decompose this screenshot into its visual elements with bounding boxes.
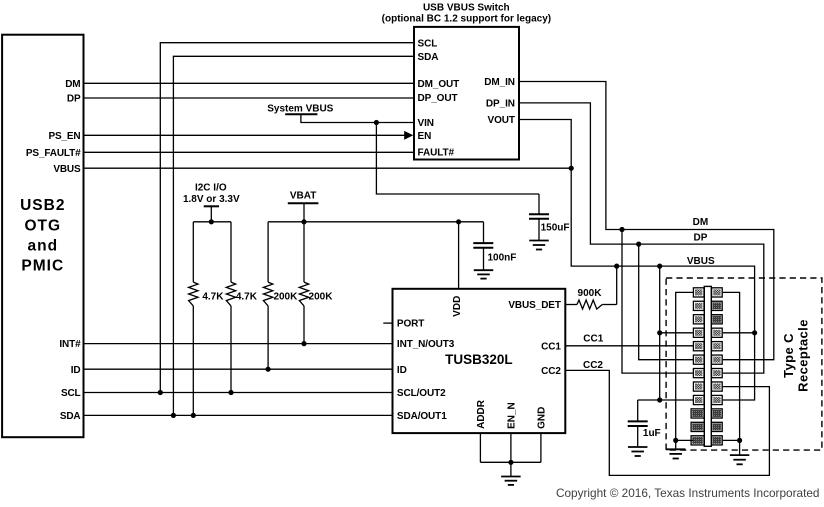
svg-text:GND: GND: [537, 407, 548, 429]
wire DM net (USB2 DM to DM_OUT): [84, 82, 414, 84]
stub PORT pin (NC): [383, 322, 392, 324]
connector pin B10 (right row 10): [712, 409, 723, 418]
svg-text:VBUS_DET: VBUS_DET: [508, 300, 561, 311]
svg-text:SCL/OUT2: SCL/OUT2: [397, 388, 446, 399]
svg-text:200K: 200K: [309, 291, 334, 302]
connector pin B4 (right row 4): [712, 328, 723, 337]
junction I2C rail: [209, 219, 214, 224]
junction R4 on INT_N net: [301, 341, 306, 346]
resistor R2 4.7K (SCL pullup): [230, 222, 232, 282]
block U3 TUSB320L: [393, 289, 566, 433]
wire PS_FAULT# to FAULT#: [84, 151, 414, 153]
svg-text:(optional BC 1.2 support for l: (optional BC 1.2 support for legacy): [382, 13, 551, 24]
svg-text:OTG: OTG: [25, 217, 62, 234]
block U2 USB2 OTG and PMIC: [2, 35, 83, 438]
connector pin A12 (left row 12): [691, 436, 704, 445]
connector pin B8 (right row 8): [712, 382, 723, 391]
wire GND right side (row1-row12): [723, 292, 740, 440]
wire VBUS (USB2 VBUS to VOUT net): [84, 167, 572, 169]
junction GND right row12: [737, 438, 742, 443]
connector pin B1 (right row 1): [712, 288, 723, 297]
svg-text:ID: ID: [397, 365, 407, 376]
svg-text:SDA: SDA: [418, 52, 439, 63]
svg-text:VBUS: VBUS: [53, 164, 81, 175]
svg-text:VIN: VIN: [418, 118, 434, 129]
capacitor C1 150uF: [538, 194, 540, 214]
svg-text:VOUT: VOUT: [488, 115, 515, 126]
wire CC1 to receptacle row5: [565, 345, 693, 347]
wire GND left side (row1-row12): [676, 292, 694, 440]
svg-text:100nF: 100nF: [488, 253, 517, 264]
junction VBUS right at row4: [752, 330, 757, 335]
junction R2 on SCL net: [228, 390, 233, 395]
wire DM branch to receptacle left: [622, 230, 693, 374]
wire VBUS row4 right: [723, 332, 755, 334]
svg-text:USB2: USB2: [20, 197, 65, 214]
svg-text:SCL: SCL: [418, 38, 438, 49]
wire SDA from switch down to SDA net: [173, 56, 413, 415]
junction R1 on SDA net: [191, 413, 196, 418]
connector pin A5 (left row 5): [693, 342, 704, 351]
svg-text:FAULT#: FAULT#: [418, 148, 455, 159]
svg-text:System VBUS: System VBUS: [267, 104, 333, 115]
svg-text:150uF: 150uF: [541, 223, 570, 234]
connector pin B6 (right row 6): [712, 355, 723, 364]
connector pin A8 (left row 8): [693, 382, 704, 391]
svg-text:SDA: SDA: [60, 411, 81, 422]
dashed box Type C Receptacle: [666, 278, 822, 450]
svg-text:PMIC: PMIC: [21, 258, 64, 275]
arrow into EN pin: [404, 131, 413, 140]
svg-text:SCL: SCL: [61, 388, 81, 399]
svg-text:DM_OUT: DM_OUT: [418, 79, 460, 90]
svg-text:4.7K: 4.7K: [236, 291, 258, 302]
wire VIN junction down to 150uF: [376, 123, 539, 195]
wire VBUS row4 left: [660, 332, 694, 334]
svg-text:DP_OUT: DP_OUT: [418, 93, 458, 104]
wire System VBUS to VIN: [301, 114, 414, 122]
svg-text:EN_N: EN_N: [507, 402, 518, 429]
connector pin A11 (left row 11): [691, 422, 704, 431]
svg-text:CC2: CC2: [541, 366, 561, 377]
svg-text:EN: EN: [418, 131, 432, 142]
svg-text:200K: 200K: [273, 291, 298, 302]
wire SDA net: [84, 414, 393, 416]
wire I2C supply stem and rail: [210, 206, 212, 222]
junction SDA vertical on SDA net: [171, 413, 176, 418]
svg-text:INT_N/OUT3: INT_N/OUT3: [397, 339, 455, 350]
svg-text:Receptacle: Receptacle: [795, 319, 810, 392]
svg-text:and: and: [28, 237, 59, 254]
svg-text:VBUS: VBUS: [687, 256, 715, 267]
svg-text:Type C: Type C: [781, 333, 796, 378]
connector pin B9 (right row 9): [712, 395, 723, 404]
wire bottom rail: [480, 461, 541, 463]
resistor R1 4.7K (SDA pullup): [192, 222, 194, 282]
connector pin A9 (left row 9): [693, 395, 704, 404]
svg-text:Copyright © 2016, Texas Instru: Copyright © 2016, Texas Instruments Inco…: [556, 486, 820, 500]
connector pin B12 (right row 12): [712, 436, 723, 445]
wire CC2 routed to receptacle row8 right: [565, 370, 769, 475]
svg-text:PORT: PORT: [397, 319, 424, 330]
wire VOUT VBUS to receptacle: [519, 120, 755, 401]
wire ADDR down: [479, 433, 481, 462]
svg-text:VDD: VDD: [452, 296, 463, 317]
ground receptacle right: [739, 440, 741, 455]
junction EN_N rail: [508, 460, 513, 465]
block U1 USB VBUS Switch: [414, 27, 519, 160]
svg-text:DM_IN: DM_IN: [484, 77, 515, 88]
svg-text:CC1: CC1: [541, 341, 561, 352]
connector pin A4 (left row 4): [693, 328, 704, 337]
svg-text:USB VBUS Switch: USB VBUS Switch: [423, 3, 510, 14]
junction VBUS left at row4: [657, 330, 662, 335]
svg-text:I2C I/O: I2C I/O: [195, 183, 227, 194]
junction VBUS left at row9 / 1uF: [657, 397, 662, 402]
junction VIN wire to 150uF branch: [374, 120, 379, 125]
ground TUSB320L: [510, 462, 512, 476]
connector pin A1 (left row 1): [693, 288, 704, 297]
svg-text:DM: DM: [65, 79, 80, 90]
svg-text:DP: DP: [694, 233, 708, 244]
capacitor C4 1uF: [637, 400, 639, 421]
connector pin A7 (left row 7): [693, 369, 704, 378]
connector center bar: [704, 286, 711, 446]
connector pin A6 (left row 6): [693, 355, 704, 364]
svg-text:VBAT: VBAT: [290, 191, 316, 202]
junction VBUS at 900K: [614, 264, 619, 269]
svg-text:ADDR: ADDR: [476, 399, 487, 429]
junction GND left row12: [673, 438, 678, 443]
svg-text:SDA/OUT1: SDA/OUT1: [397, 411, 447, 422]
wire row9 left with 1uF tap: [638, 399, 694, 401]
connector pin A2 (left row 2): [693, 301, 704, 310]
svg-text:1uF: 1uF: [643, 428, 661, 439]
junction VBAT stem on rail: [301, 219, 306, 224]
junction VBUS left branch: [657, 264, 662, 269]
wire SCL from switch down to SCL net: [160, 43, 413, 393]
svg-text:PS_EN: PS_EN: [48, 131, 80, 142]
junction VDD branch on rail: [456, 219, 461, 224]
wire DP net (USB2 DP to DP_OUT): [84, 97, 414, 99]
junction R3 on ID net: [266, 367, 271, 372]
resistor R3 200K (ID pullup): [267, 222, 269, 282]
svg-text:CC1: CC1: [583, 334, 603, 345]
capacitor C2 100nF: [483, 222, 485, 243]
svg-text:DP: DP: [67, 94, 81, 105]
connector pin B3 (right row 3): [712, 315, 723, 324]
junction DP wire branch: [636, 242, 641, 247]
wire ID net: [84, 368, 393, 370]
wire DP branch to receptacle left: [639, 244, 694, 360]
connector pin A3 (left row 3): [693, 315, 704, 324]
wire SCL net: [84, 392, 393, 394]
connector pin B7 (right row 7): [712, 369, 723, 378]
wire INT# net: [84, 343, 393, 345]
wire GND down: [540, 433, 542, 462]
wire row12 right pin: [723, 439, 740, 441]
svg-text:CC2: CC2: [583, 360, 603, 371]
svg-text:ID: ID: [71, 365, 81, 376]
junction DM wire branch: [619, 227, 624, 232]
connector pin B2 (right row 2): [712, 301, 723, 310]
wire DP_IN to receptacle: [519, 103, 764, 373]
wire 900K up to VBUS: [616, 266, 618, 304]
wire VBAT stem and rail: [303, 203, 305, 222]
junction VBUS wire at VOUT vertical: [569, 166, 574, 171]
connector pin A10 (left row 10): [691, 409, 704, 418]
svg-text:DM: DM: [693, 217, 709, 228]
svg-text:1.8V or 3.3V: 1.8V or 3.3V: [183, 194, 240, 205]
svg-text:INT#: INT#: [59, 339, 81, 350]
svg-text:TUSB320L: TUSB320L: [445, 352, 513, 367]
junction SCL vertical on SCL net: [158, 390, 163, 395]
ground receptacle left: [675, 440, 677, 449]
wire VBUS left vertical: [659, 266, 661, 400]
wire EN_N down: [510, 433, 512, 462]
wire row12 left pin: [676, 439, 694, 441]
connector pin B5 (right row 5): [712, 342, 723, 351]
connector pin B11 (right row 11): [712, 422, 723, 431]
wire DM_IN to receptacle: [519, 82, 774, 360]
resistor R5 900K: [565, 304, 577, 306]
wire PS_EN to EN: [84, 134, 405, 136]
svg-text:DP_IN: DP_IN: [486, 99, 515, 110]
svg-text:900K: 900K: [578, 288, 603, 299]
wire VDD from rail to TUSB320L: [458, 222, 460, 289]
resistor R4 200K (INT_N pullup): [303, 222, 305, 282]
svg-text:4.7K: 4.7K: [202, 291, 224, 302]
svg-text:PS_FAULT#: PS_FAULT#: [26, 148, 81, 159]
